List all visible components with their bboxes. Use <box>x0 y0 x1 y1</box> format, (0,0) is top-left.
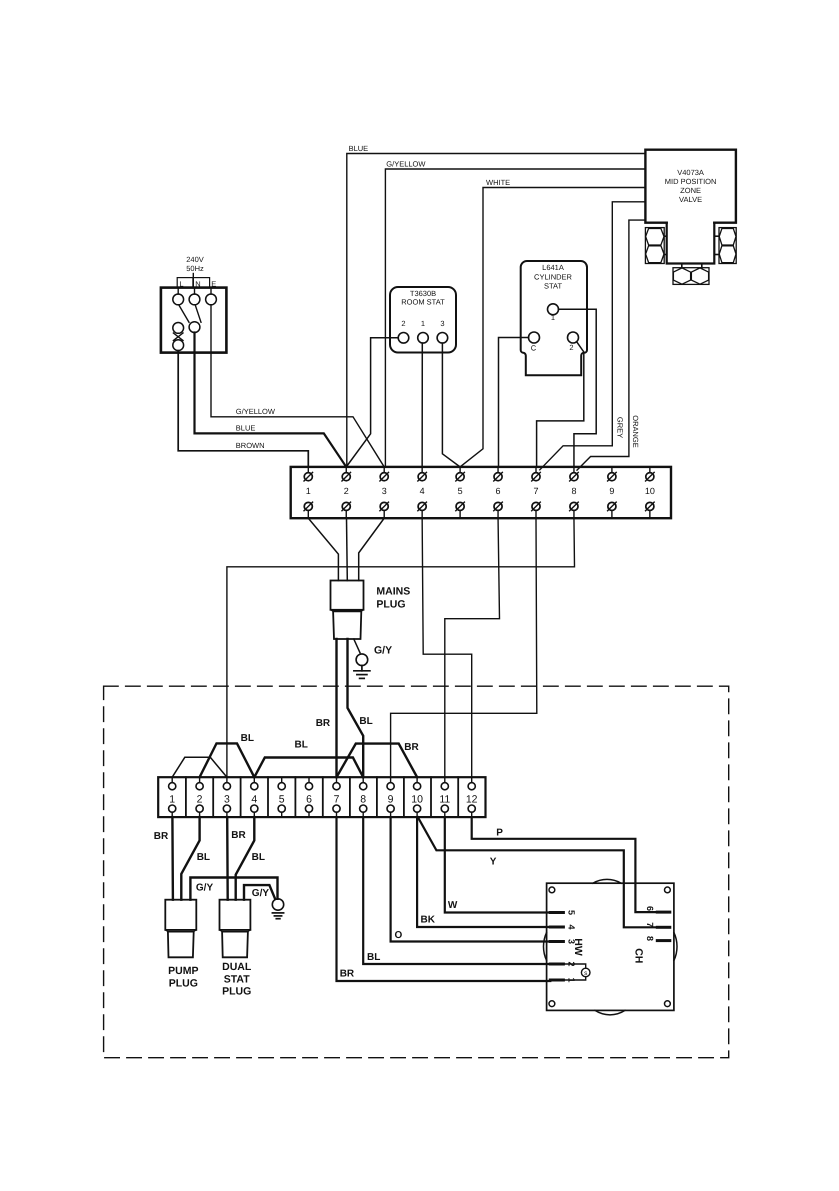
lower terminal 6 <box>305 777 312 817</box>
wire cyl stat C to strip 6 <box>499 338 529 467</box>
lower terminal strip <box>158 777 485 817</box>
terminal 9 <box>608 467 617 518</box>
zone valve V4073A head <box>645 150 736 223</box>
wire BK lower10 to programmer 4 <box>417 817 550 927</box>
wire supply feed <box>192 274 194 288</box>
svg-text:2: 2 <box>401 319 405 328</box>
svg-text:5: 5 <box>567 910 577 915</box>
cylinder stat L641A body <box>521 261 587 375</box>
wire BL lower2 to pump plug <box>181 817 199 900</box>
wire grey valve to strip 7 <box>540 202 646 470</box>
switch blade L <box>179 305 189 322</box>
wire BR lower7 to programmer 1 <box>337 817 551 981</box>
SECTION: lowerwires <box>154 817 658 981</box>
wire W lower11 to programmer 5 <box>445 817 551 912</box>
wire blue from N <box>195 333 347 467</box>
svg-text:CYLINDER: CYLINDER <box>534 272 573 281</box>
lower terminal 12 <box>466 777 478 817</box>
wire g/yellow from E <box>211 305 384 467</box>
wire O lower9 to programmer 3 <box>391 817 551 941</box>
svg-text:P: P <box>496 828 503 839</box>
svg-text:VALVE: VALVE <box>679 195 702 204</box>
svg-text:T3630B: T3630B <box>410 289 436 298</box>
mounting hole bottom-left <box>549 1001 555 1007</box>
svg-text:BR: BR <box>316 718 331 729</box>
svg-text:1: 1 <box>421 319 425 328</box>
pin 8 tick <box>657 939 670 942</box>
wire G/Y dual earth <box>244 885 275 900</box>
SECTION: roomstat <box>346 287 460 467</box>
dial bump bottom <box>595 1010 625 1014</box>
pin labels 5 4 3 2 1 <box>567 910 577 983</box>
lower terminal 4 <box>251 777 258 817</box>
svg-text:6: 6 <box>645 906 655 911</box>
pipe union left <box>645 228 664 264</box>
pipe stub right <box>714 235 719 237</box>
svg-text:3: 3 <box>382 486 387 496</box>
wire G/Y pump earth <box>190 878 277 900</box>
svg-text:5: 5 <box>458 486 463 496</box>
svg-text:4: 4 <box>251 793 257 805</box>
svg-text:ZONE: ZONE <box>680 186 701 195</box>
pipe union bottom <box>673 268 709 285</box>
wire cyl stat 1 to strip 8 <box>559 309 597 467</box>
supply label 240V 50Hz <box>186 255 204 273</box>
wire room stat 2 to strip 2 <box>346 338 398 467</box>
svg-text:PLUG: PLUG <box>376 598 405 610</box>
svg-text:5: 5 <box>279 793 285 805</box>
dial bump top <box>593 879 621 883</box>
wire white valve to strip 5 <box>460 188 645 467</box>
wire strip2 to mains plug <box>346 518 349 580</box>
lower terminal 2 <box>196 777 203 817</box>
svg-text:MID POSITION: MID POSITION <box>665 177 717 186</box>
SECTION: supply <box>161 255 384 467</box>
wire strip8 to lower strip 3 <box>227 518 575 777</box>
lower terminal 8 <box>360 777 367 817</box>
pipe union right <box>719 228 736 264</box>
earth terminal circle <box>356 654 368 666</box>
terminal 2 <box>568 332 579 343</box>
dual stat plug body <box>220 900 251 930</box>
svg-text:V4073A: V4073A <box>677 168 704 177</box>
switch symbol circle <box>581 968 590 977</box>
bridge link 4-8 BL <box>254 758 363 778</box>
wire strip7 to lower strip 9 <box>391 518 537 777</box>
SECTION: valve <box>645 150 736 285</box>
svg-text:C: C <box>531 344 537 353</box>
svg-text:G/YELLOW: G/YELLOW <box>386 160 426 169</box>
wire orange valve to strip 8 <box>577 220 645 470</box>
terminal 4 <box>418 467 427 518</box>
terminal L <box>177 288 179 295</box>
svg-text:BROWN: BROWN <box>236 441 265 450</box>
lower terminal 7 <box>333 777 340 817</box>
mains plug body <box>331 581 364 610</box>
terminal 3 <box>380 467 389 518</box>
label MAINS PLUG <box>376 586 410 611</box>
terminal 8 <box>570 467 579 518</box>
svg-text:3: 3 <box>440 319 444 328</box>
svg-text:MAINS: MAINS <box>376 586 410 598</box>
lower terminal 11 <box>439 777 450 817</box>
svg-text:4: 4 <box>567 924 577 929</box>
terminal 2 <box>342 467 351 518</box>
svg-text:10: 10 <box>645 486 655 496</box>
lower terminal 1 <box>169 777 176 817</box>
svg-text:12: 12 <box>466 793 478 805</box>
wire BR lower3 to dual stat plug <box>226 817 229 900</box>
terminal 1 <box>304 467 313 518</box>
terminal N <box>194 288 196 295</box>
wire room stat 3 to strip 5 <box>442 343 460 467</box>
SECTION: topwires <box>347 144 646 470</box>
switch bracket pins 1-2 <box>563 964 585 968</box>
svg-text:PLUG: PLUG <box>222 986 251 998</box>
pin 5 tick <box>550 911 563 914</box>
svg-text:STAT: STAT <box>224 973 250 985</box>
lower terminal 10 <box>411 777 423 817</box>
label DUAL STAT PLUG <box>222 961 252 998</box>
wire strip6 to lower strip 11 <box>445 518 500 777</box>
svg-text:BL: BL <box>359 716 372 727</box>
mounting hole bottom-right <box>665 1001 671 1007</box>
svg-text:GREY: GREY <box>616 417 625 438</box>
wire BL lower4 to dual stat plug <box>236 817 255 900</box>
svg-text:BL: BL <box>252 852 265 863</box>
upper terminal strip <box>291 467 671 518</box>
wire strip3 to mains plug <box>359 518 385 580</box>
wire g/yellow valve to strip 3 <box>385 169 645 467</box>
svg-text:BL: BL <box>197 852 210 863</box>
svg-text:W: W <box>448 900 458 911</box>
ground symbol plugs <box>272 913 283 919</box>
wire P lower12 to programmer 6 <box>472 817 658 912</box>
room stat T3630B body <box>390 287 456 353</box>
SECTION: midwires <box>227 518 575 777</box>
pipe stub left <box>664 235 667 237</box>
wire brown from L <box>178 351 308 467</box>
svg-text:BR: BR <box>340 969 355 980</box>
wire brown mains plug down <box>335 639 337 777</box>
mounting hole top-right <box>665 887 671 893</box>
pipe stub bottom <box>681 264 683 268</box>
wire cyl stat 2 to strip 7 <box>537 342 584 467</box>
switch contact N <box>189 322 200 333</box>
valve body <box>667 223 715 264</box>
svg-text:ORANGE: ORANGE <box>631 415 640 448</box>
svg-text:50Hz: 50Hz <box>186 264 204 273</box>
svg-text:PLUG: PLUG <box>169 978 198 990</box>
svg-text:HW: HW <box>572 938 584 956</box>
svg-text:G/Y: G/Y <box>196 883 214 894</box>
svg-text:7: 7 <box>334 793 340 805</box>
pin 6 tick <box>657 911 670 914</box>
svg-text:1: 1 <box>169 793 175 805</box>
wire blue mains plug down <box>348 639 364 777</box>
terminal label box L N <box>177 278 209 288</box>
terminal E <box>210 288 212 295</box>
lower terminal 5 <box>278 777 285 817</box>
dial bump right <box>674 933 677 961</box>
svg-text:BL: BL <box>241 733 254 744</box>
svg-text:BR: BR <box>404 742 419 753</box>
wire strip1 to mains plug <box>308 518 338 580</box>
svg-text:2: 2 <box>197 793 203 805</box>
terminal C <box>529 332 540 343</box>
svg-text:8: 8 <box>645 936 655 941</box>
svg-text:2: 2 <box>569 343 573 352</box>
terminal 3 <box>437 333 448 344</box>
wire strip4 to lower strip 12 <box>422 518 472 777</box>
terminal 6 <box>494 467 503 518</box>
boiler unit dashed enclosure <box>104 686 729 1057</box>
dial bump left <box>543 933 546 961</box>
pin labels 6 7 8 <box>645 906 655 941</box>
pin 3 tick <box>550 940 563 943</box>
svg-text:3: 3 <box>224 793 230 805</box>
lower terminal 3 <box>223 777 230 817</box>
wire BR lower1 to pump plug <box>171 817 174 900</box>
svg-text:9: 9 <box>609 486 614 496</box>
svg-text:BL: BL <box>367 952 380 963</box>
svg-text:7: 7 <box>645 922 655 927</box>
svg-text:9: 9 <box>388 793 394 805</box>
terminal 2 <box>398 333 409 344</box>
svg-text:PUMP: PUMP <box>168 965 198 977</box>
svg-text:BLUE: BLUE <box>349 144 369 153</box>
terminal 10 <box>645 467 655 518</box>
svg-text:BL: BL <box>295 740 308 751</box>
SECTION: upperstrip <box>291 467 671 518</box>
svg-text:Y: Y <box>490 857 497 868</box>
mounting hole top-left <box>549 887 555 893</box>
svg-text:STAT: STAT <box>544 282 562 291</box>
bridge link 2-4 BL <box>200 743 255 777</box>
terminal 7 <box>532 467 541 518</box>
programmer ST699 body <box>547 883 674 1010</box>
earth terminal circle plugs <box>272 899 283 910</box>
svg-text:G/Y: G/Y <box>374 645 392 657</box>
svg-text:6: 6 <box>306 793 312 805</box>
SECTION: plugs <box>165 900 252 998</box>
terminal 1 <box>418 333 429 344</box>
svg-text:L641A: L641A <box>542 263 564 272</box>
fuse link L <box>173 333 183 341</box>
SECTION: dashedbox <box>104 686 729 1057</box>
svg-text:CH: CH <box>633 948 645 963</box>
bridge link 1-3 <box>172 757 227 777</box>
terminal 5 <box>456 467 465 518</box>
svg-text:G/YELLOW: G/YELLOW <box>236 407 276 416</box>
pin 4 tick <box>550 926 563 929</box>
pin 2 tick <box>550 963 563 966</box>
svg-text:BK: BK <box>421 915 436 926</box>
supply switch box <box>161 288 227 353</box>
svg-text:4: 4 <box>420 486 425 496</box>
switch blade N <box>195 305 201 322</box>
wire room stat 1 to strip 4 <box>421 343 423 467</box>
wire g/y mains earth <box>354 639 360 653</box>
svg-text:6: 6 <box>496 486 501 496</box>
pump plug body <box>165 900 196 930</box>
svg-text:8: 8 <box>571 486 576 496</box>
svg-text:ROOM STAT: ROOM STAT <box>401 298 445 307</box>
SECTION: programmer <box>543 879 677 1014</box>
switch contact L <box>173 323 184 334</box>
svg-text:10: 10 <box>411 793 423 805</box>
svg-text:WHITE: WHITE <box>486 178 510 187</box>
svg-text:240V: 240V <box>186 255 204 264</box>
wire blue valve to strip 2 <box>347 154 646 467</box>
bridge link 7-10 BR <box>337 744 418 778</box>
ground symbol <box>354 666 370 679</box>
svg-text:BR: BR <box>154 831 169 842</box>
label PUMP PLUG <box>168 965 198 990</box>
svg-text:BLUE: BLUE <box>236 424 256 433</box>
terminal 1 <box>548 304 559 315</box>
svg-text:11: 11 <box>439 793 450 805</box>
pin 1 tick <box>550 979 563 982</box>
svg-text:G/Y: G/Y <box>252 888 270 899</box>
wire BL lower8 to programmer 2 <box>363 817 550 964</box>
wire Y lower10 to programmer 7 <box>418 817 658 927</box>
lower terminal 9 <box>387 777 394 817</box>
svg-text:2: 2 <box>344 486 349 496</box>
SECTION: lowerstrip <box>158 716 485 817</box>
svg-text:O: O <box>395 930 403 941</box>
pin 7 tick <box>657 926 670 929</box>
svg-text:8: 8 <box>360 793 366 805</box>
svg-text:1: 1 <box>306 486 311 496</box>
svg-text:7: 7 <box>533 486 538 496</box>
SECTION: cylstat <box>499 261 597 467</box>
svg-text:BR: BR <box>231 830 246 841</box>
svg-text:DUAL: DUAL <box>222 961 252 973</box>
